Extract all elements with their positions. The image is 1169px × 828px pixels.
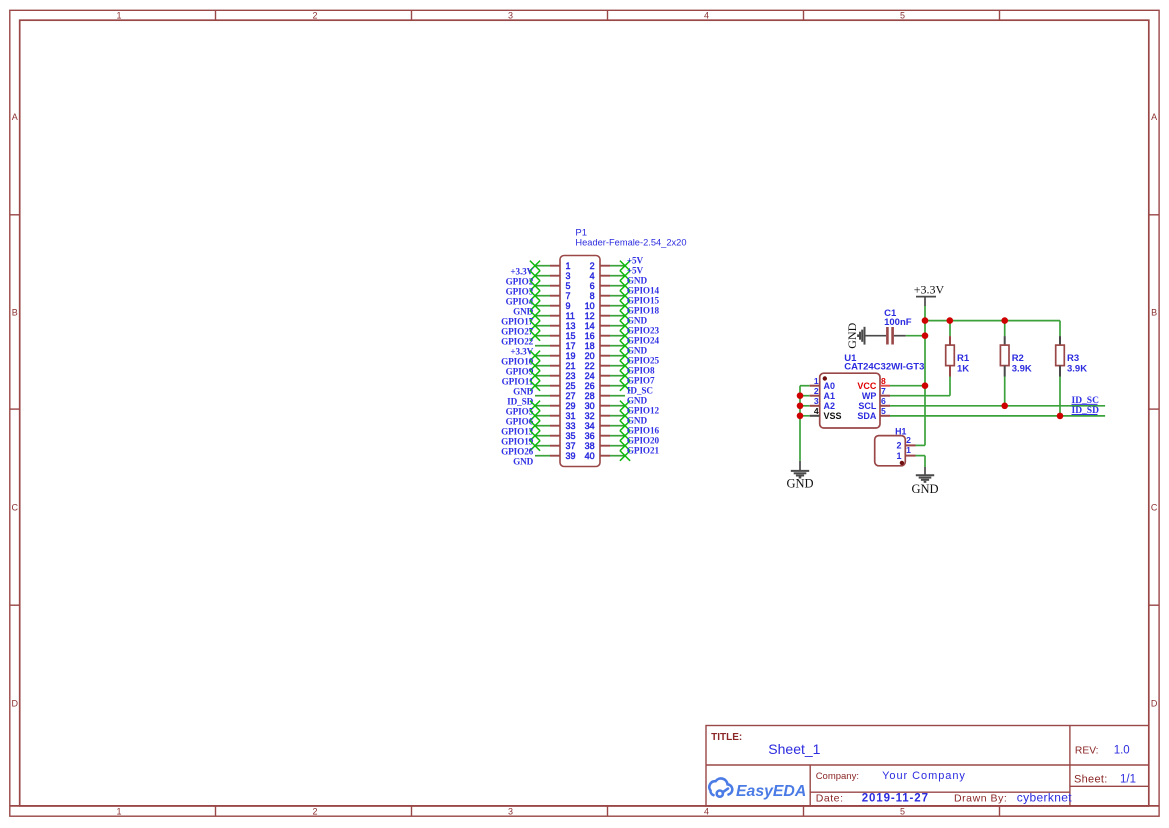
svg-text:GPIO17: GPIO17 [501, 317, 534, 327]
P1 pin 40 (right) [600, 455, 610, 457]
P1 pin 21 (left) [550, 365, 560, 367]
op-amp U1 body [820, 373, 880, 428]
P1 pin 17 (left) [550, 345, 560, 347]
svg-text:39: 39 [566, 451, 576, 461]
svg-text:6: 6 [881, 396, 886, 406]
junction at 925,335.7 [922, 332, 929, 339]
capacitor C1 plates [886, 327, 889, 345]
svg-text:Date:: Date: [816, 793, 844, 805]
svg-text:GND: GND [845, 322, 859, 348]
svg-text:16: 16 [585, 331, 595, 341]
svg-text:GND: GND [627, 415, 648, 425]
svg-text:6: 6 [590, 281, 595, 291]
header H1 body [875, 436, 906, 466]
svg-text:Header-Female-2.54_2x20: Header-Female-2.54_2x20 [575, 238, 686, 248]
resistor R3 3.9K [1059, 336, 1061, 345]
wire top rail [925, 320, 1060, 322]
svg-text:D: D [1151, 699, 1158, 709]
P1 pin 13 (left) [550, 325, 560, 327]
svg-text:GPIO10: GPIO10 [501, 357, 534, 367]
wire SCL / ID_SC [890, 405, 1105, 407]
wire SDA / ID_SD [890, 415, 1105, 417]
wire U1 pin2 stub [800, 395, 810, 397]
svg-text:GND: GND [513, 457, 534, 467]
svg-text:3.9K: 3.9K [1012, 363, 1032, 374]
svg-text:24: 24 [585, 371, 595, 381]
svg-text:33: 33 [566, 421, 576, 431]
svg-text:ID_SD: ID_SD [507, 397, 534, 407]
P1 pin 36 (right) [600, 435, 610, 437]
svg-text:GND: GND [786, 476, 813, 490]
svg-text:2: 2 [814, 386, 819, 396]
svg-text:GPIO8: GPIO8 [627, 365, 655, 375]
P1 pin 18 (right) [600, 345, 610, 347]
ground (H1) [924, 467, 926, 475]
U1 pin 2 stub [810, 395, 820, 397]
junction at 800,415.8 [797, 413, 804, 420]
junction at 800,405.8 [797, 403, 804, 410]
wire R2 bottom to SCL [1004, 377, 1006, 406]
svg-text:20: 20 [585, 351, 595, 361]
svg-text:GPIO18: GPIO18 [627, 305, 660, 315]
svg-text:37: 37 [566, 441, 576, 451]
P1 pin 25 (left) [550, 385, 560, 387]
svg-text:11: 11 [566, 311, 575, 321]
svg-text:4: 4 [814, 406, 819, 416]
svg-text:GPIO26: GPIO26 [501, 447, 534, 457]
wire H1 pin2 to VCC [916, 444, 926, 446]
svg-text:4: 4 [590, 271, 595, 281]
+3.3V power flag [916, 296, 936, 298]
svg-text:1K: 1K [957, 363, 969, 374]
svg-text:1/1: 1/1 [1120, 773, 1136, 785]
P1 pin 20 (right) [600, 355, 610, 357]
wire R3 bottom to SDA [1059, 377, 1061, 416]
U1 pin 3 stub [810, 405, 820, 407]
svg-text:VSS: VSS [824, 411, 842, 421]
P1 pin 35 (left) [550, 435, 560, 437]
svg-text:12: 12 [585, 311, 595, 321]
P1 pin 14 (right) [600, 325, 610, 327]
svg-text:GPIO2: GPIO2 [506, 277, 534, 287]
svg-text:GPIO6: GPIO6 [506, 417, 534, 427]
svg-text:3: 3 [508, 11, 513, 21]
ground (U1 VSS) [799, 461, 801, 470]
P1 pin 7 (left) [550, 295, 560, 297]
svg-text:GPIO5: GPIO5 [506, 407, 534, 417]
svg-text:GPIO9: GPIO9 [506, 367, 534, 377]
svg-text:+3.3V: +3.3V [914, 283, 945, 297]
svg-text:GPIO19: GPIO19 [501, 437, 534, 447]
wire U1 pin3 stub [800, 405, 810, 407]
svg-text:13: 13 [566, 321, 576, 331]
svg-text:32: 32 [585, 411, 595, 421]
svg-text:40: 40 [585, 451, 595, 461]
U1 pin 5 stub [880, 415, 890, 417]
svg-text:1: 1 [814, 376, 819, 386]
svg-text:SDA: SDA [857, 411, 877, 421]
capacitor C1 left lead [865, 335, 887, 337]
svg-text:30: 30 [585, 401, 595, 411]
svg-text:GPIO21: GPIO21 [627, 445, 660, 455]
svg-text:D: D [11, 699, 18, 709]
svg-text:cyberknet: cyberknet [1017, 791, 1072, 805]
svg-text:7: 7 [566, 291, 571, 301]
svg-text:8: 8 [881, 376, 886, 386]
P1 pin 28 (right) [600, 395, 610, 397]
P1 pin 19 (left) [550, 355, 560, 357]
svg-text:EasyEDA: EasyEDA [736, 783, 806, 800]
P1 pin 31 (left) [550, 415, 560, 417]
H1 pin1 marker [900, 461, 904, 465]
junction at 925,320.6 [922, 317, 929, 324]
svg-text:23: 23 [566, 371, 576, 381]
svg-text:A: A [1151, 112, 1157, 122]
svg-text:4: 4 [704, 11, 709, 21]
svg-text:GPIO16: GPIO16 [627, 425, 660, 435]
svg-text:5: 5 [566, 281, 571, 291]
svg-text:REV:: REV: [1075, 746, 1099, 757]
svg-text:2: 2 [312, 11, 317, 21]
svg-text:31: 31 [566, 411, 576, 421]
junction at 800,395.7 [797, 392, 804, 399]
svg-text:+5V: +5V [627, 255, 644, 265]
P1 pin 16 (right) [600, 335, 610, 337]
resistor R2 3.9K [1004, 336, 1006, 345]
junction at 1060,415.9 [1057, 413, 1064, 420]
svg-text:GPIO3: GPIO3 [506, 287, 534, 297]
wire U1 A-pins vertical [799, 386, 801, 461]
svg-text:GPIO13: GPIO13 [501, 427, 534, 437]
wire U1 pin4 stub [800, 415, 810, 417]
P1 pin 34 (right) [600, 425, 610, 427]
svg-text:GPIO20: GPIO20 [627, 435, 660, 445]
P1 pin 30 (right) [600, 405, 610, 407]
wire R3 top [1059, 321, 1061, 337]
svg-text:1: 1 [116, 11, 121, 21]
svg-text:36: 36 [585, 431, 595, 441]
svg-text:VCC: VCC [857, 381, 877, 391]
svg-text:GPIO22: GPIO22 [501, 337, 534, 347]
svg-text:15: 15 [566, 331, 576, 341]
svg-text:28: 28 [585, 391, 595, 401]
P1 pin 15 (left) [550, 335, 560, 337]
svg-text:B: B [1151, 308, 1157, 318]
wire R2 top [1004, 321, 1006, 337]
frame division ticks [215, 10, 217, 20]
svg-text:A0: A0 [824, 381, 836, 391]
svg-text:5: 5 [900, 806, 905, 816]
junction at 1004.7,405.8 [1001, 403, 1008, 410]
P1 pin 23 (left) [550, 375, 560, 377]
capacitor C1 right lead [894, 335, 906, 337]
svg-text:SCL: SCL [858, 401, 877, 411]
svg-text:10: 10 [585, 301, 595, 311]
svg-text:29: 29 [566, 401, 576, 411]
svg-text:21: 21 [566, 361, 576, 371]
P1 pin 39 (left) [550, 455, 560, 457]
svg-text:Company:: Company: [816, 771, 859, 782]
junction at 1004.7,320.6 [1001, 317, 1008, 324]
U1 pin 7 stub [880, 395, 890, 397]
svg-text:GPIO11: GPIO11 [502, 377, 534, 387]
svg-text:Drawn By:: Drawn By: [954, 793, 1007, 805]
P1 pin 27 (left) [550, 395, 560, 397]
P1 pin 4 (right) [600, 275, 610, 277]
P1 pin 1 (left) [550, 265, 560, 267]
wire H1 pin1 to GND [916, 455, 926, 457]
U1 pin 1 stub [810, 385, 820, 387]
wire +3.3V stem [924, 306, 926, 321]
P1 pin 2 (right) [600, 265, 610, 267]
svg-text:GND: GND [627, 345, 648, 355]
P1 pin 12 (right) [600, 315, 610, 317]
svg-text:22: 22 [585, 361, 595, 371]
svg-text:A1: A1 [824, 391, 836, 401]
P1 pin 9 (left) [550, 305, 560, 307]
svg-text:17: 17 [566, 341, 576, 351]
H1 pin 2 stub [905, 444, 915, 446]
svg-text:2: 2 [590, 261, 595, 271]
P1 pin 10 (right) [600, 305, 610, 307]
svg-text:C: C [1151, 503, 1158, 513]
svg-text:GPIO14: GPIO14 [627, 285, 660, 295]
svg-text:1.0: 1.0 [1114, 745, 1130, 757]
P1 pin 38 (right) [600, 445, 610, 447]
svg-text:25: 25 [566, 381, 576, 391]
svg-text:35: 35 [566, 431, 576, 441]
svg-text:38: 38 [585, 441, 595, 451]
svg-text:B: B [12, 308, 18, 318]
svg-text:A: A [12, 112, 18, 122]
capacitor C1 GND flag [858, 327, 864, 345]
svg-text:Your Company: Your Company [882, 770, 966, 782]
P1 pin 32 (right) [600, 415, 610, 417]
svg-text:4: 4 [704, 806, 709, 816]
wire C1 to VCC [906, 335, 925, 337]
svg-text:5: 5 [900, 11, 905, 21]
svg-text:14: 14 [585, 321, 595, 331]
svg-text:GPIO25: GPIO25 [627, 355, 660, 365]
svg-text:27: 27 [566, 391, 576, 401]
svg-text:A2: A2 [824, 401, 836, 411]
P1 pin 29 (left) [550, 405, 560, 407]
svg-text:GPIO23: GPIO23 [627, 325, 660, 335]
svg-text:3: 3 [566, 271, 571, 281]
svg-text:2: 2 [896, 441, 901, 451]
H1 pin 1 stub [905, 455, 915, 457]
svg-text:26: 26 [585, 381, 595, 391]
P1 pin 37 (left) [550, 445, 560, 447]
svg-text:GND: GND [627, 395, 648, 405]
svg-text:5: 5 [881, 406, 886, 416]
svg-text:GPIO27: GPIO27 [501, 327, 534, 337]
svg-text:3: 3 [814, 396, 819, 406]
svg-text:19: 19 [566, 351, 576, 361]
wire U1 pin8 to VCC [890, 385, 925, 387]
title block grid [706, 726, 1149, 807]
svg-text:2: 2 [906, 435, 911, 445]
P1 pin 24 (right) [600, 375, 610, 377]
svg-text:8: 8 [590, 291, 595, 301]
wire VCC vertical [924, 321, 926, 446]
P1 pin 26 (right) [600, 385, 610, 387]
U1 pin 4 stub [810, 415, 820, 417]
svg-text:7: 7 [881, 386, 886, 396]
svg-text:Sheet_1: Sheet_1 [768, 741, 820, 757]
svg-text:GND: GND [513, 387, 534, 397]
svg-text:2: 2 [312, 806, 317, 816]
connector P1 body [560, 256, 600, 467]
junction at 949.8,320.6 [947, 317, 954, 324]
svg-text:GPIO4: GPIO4 [506, 297, 534, 307]
svg-text:WP: WP [862, 391, 877, 401]
P1 pin 22 (right) [600, 365, 610, 367]
svg-text:Sheet:: Sheet: [1074, 773, 1108, 785]
svg-text:34: 34 [585, 421, 595, 431]
P1 pin 33 (left) [550, 425, 560, 427]
svg-text:GPIO15: GPIO15 [627, 295, 660, 305]
P1 pin 5 (left) [550, 285, 560, 287]
svg-text:100nF: 100nF [884, 317, 912, 328]
svg-text:GPIO12: GPIO12 [627, 405, 660, 415]
svg-text:GND: GND [627, 315, 648, 325]
P1 pin 6 (right) [600, 285, 610, 287]
svg-text:1: 1 [566, 261, 571, 271]
svg-text:GND: GND [911, 482, 938, 496]
svg-text:H1: H1 [895, 426, 906, 436]
svg-text:2019-11-27: 2019-11-27 [862, 793, 929, 805]
EasyEDA logo cloud [709, 778, 732, 796]
svg-text:1: 1 [896, 451, 901, 461]
U1 pin1 marker [823, 376, 827, 380]
svg-text:1: 1 [906, 445, 911, 455]
svg-text:TITLE:: TITLE: [711, 732, 742, 743]
svg-text:1: 1 [116, 806, 121, 816]
svg-text:GPIO7: GPIO7 [627, 375, 655, 385]
P1 pin 3 (left) [550, 275, 560, 277]
P1 pin 8 (right) [600, 295, 610, 297]
svg-text:GND: GND [627, 275, 648, 285]
U1 pin 8 stub [880, 385, 890, 387]
svg-text:C: C [11, 503, 18, 513]
wire U1 pin1 stub [800, 385, 810, 387]
svg-text:3: 3 [508, 806, 513, 816]
svg-text:+5V: +5V [627, 265, 644, 275]
svg-text:CAT24C32WI-GT3: CAT24C32WI-GT3 [844, 362, 924, 373]
svg-text:18: 18 [585, 341, 595, 351]
P1 pin 11 (left) [550, 315, 560, 317]
svg-text:9: 9 [566, 301, 571, 311]
U1 pin 6 stub [880, 405, 890, 407]
resistor R1 1K [949, 336, 951, 345]
junction at 925,385.7 [922, 382, 929, 389]
svg-text:ID_SC: ID_SC [627, 385, 653, 395]
wire R1 top [949, 321, 951, 337]
svg-text:GPIO24: GPIO24 [627, 335, 660, 345]
wire U1 pin7 to R1 [890, 395, 950, 397]
svg-text:3.9K: 3.9K [1067, 363, 1087, 374]
